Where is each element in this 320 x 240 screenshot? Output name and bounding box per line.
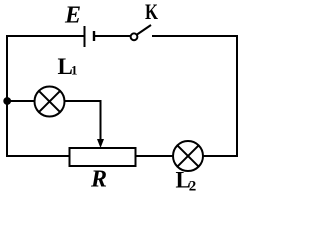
svg-text:K: K xyxy=(145,0,158,24)
wire lamp L2 to rheostat xyxy=(136,155,173,157)
wire wiper vertical xyxy=(100,101,102,141)
wire top-left (battery to left corner) xyxy=(7,35,84,37)
wiper arrow head xyxy=(97,139,104,148)
battery E long plate xyxy=(84,26,86,47)
wire bottom-left (rheostat to left corner) xyxy=(6,155,70,157)
label L1 xyxy=(58,54,78,79)
svg-text:2: 2 xyxy=(189,178,197,194)
wire left side xyxy=(6,35,8,157)
wire battery to switch xyxy=(95,35,130,37)
rheostat R body xyxy=(70,148,136,166)
lamp L2 xyxy=(173,141,203,171)
wire bottom-right (right corner to lamp L2) xyxy=(203,155,238,157)
label L2 xyxy=(176,168,197,195)
switch K pivot circle xyxy=(131,33,138,40)
svg-text:E: E xyxy=(64,3,81,29)
lamp L1 xyxy=(35,87,65,117)
svg-text:R: R xyxy=(90,167,107,193)
node junction dot xyxy=(3,97,11,105)
wire lamp L1 to wiper corner xyxy=(64,100,102,102)
switch K blade xyxy=(137,25,151,35)
wire switch to top-right corner xyxy=(152,35,238,37)
battery E short plate xyxy=(93,31,95,41)
svg-text:1: 1 xyxy=(71,63,78,78)
wire junction to lamp L1 xyxy=(7,100,35,102)
wire right side (top-right corner down to L2 level) xyxy=(236,35,238,157)
